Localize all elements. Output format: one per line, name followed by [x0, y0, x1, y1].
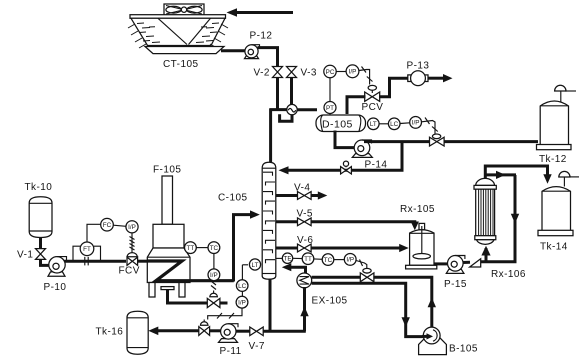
svg-text:PCV: PCV [362, 102, 384, 113]
svg-text:CT-105: CT-105 [163, 59, 199, 70]
svg-text:Tk-14: Tk-14 [540, 242, 568, 253]
svg-text:FC: FC [103, 222, 112, 229]
svg-text:LC: LC [390, 121, 399, 128]
svg-text:LT: LT [370, 121, 377, 128]
svg-text:FT: FT [83, 246, 91, 253]
svg-text:V-1: V-1 [17, 250, 33, 261]
svg-text:V-7: V-7 [249, 341, 265, 352]
svg-text:V-3: V-3 [301, 68, 317, 79]
svg-text:F-105: F-105 [153, 165, 181, 176]
svg-text:TT: TT [304, 256, 312, 263]
svg-text:P-12: P-12 [250, 31, 273, 42]
svg-text:Tk-16: Tk-16 [96, 327, 124, 338]
svg-text:V-5: V-5 [297, 209, 313, 220]
svg-text:I/P: I/P [128, 224, 136, 231]
svg-text:I/P: I/P [238, 300, 246, 307]
svg-text:P-15: P-15 [444, 279, 467, 290]
svg-text:TT: TT [187, 245, 195, 252]
svg-text:Tk-12: Tk-12 [539, 154, 567, 165]
svg-text:I/P: I/P [412, 120, 420, 127]
svg-text:LC: LC [238, 283, 247, 290]
svg-text:Rx-105: Rx-105 [400, 204, 435, 215]
svg-text:B-105: B-105 [449, 344, 478, 355]
svg-text:FCV: FCV [119, 266, 140, 277]
svg-text:V-2: V-2 [254, 68, 270, 79]
svg-text:LT: LT [252, 262, 259, 269]
svg-text:PC: PC [326, 69, 335, 76]
svg-text:I/P: I/P [346, 257, 354, 264]
svg-text:V-4: V-4 [294, 183, 310, 194]
svg-text:Tk-10: Tk-10 [25, 182, 53, 193]
svg-text:EX-105: EX-105 [312, 296, 348, 307]
svg-text:P-13: P-13 [407, 61, 430, 72]
svg-text:D-105: D-105 [322, 119, 353, 131]
svg-text:C-105: C-105 [218, 193, 248, 204]
svg-text:TC: TC [210, 245, 219, 252]
svg-text:P-11: P-11 [220, 346, 242, 357]
svg-text:I/P: I/P [349, 69, 357, 76]
svg-text:V-6: V-6 [297, 235, 313, 246]
svg-text:Rx-106: Rx-106 [491, 269, 526, 280]
svg-text:TC: TC [324, 257, 333, 264]
svg-text:P-14: P-14 [365, 160, 388, 171]
svg-text:TE: TE [283, 256, 291, 263]
svg-text:P-10: P-10 [44, 282, 67, 293]
svg-text:I/P: I/P [210, 272, 218, 279]
svg-text:PT: PT [326, 105, 334, 112]
